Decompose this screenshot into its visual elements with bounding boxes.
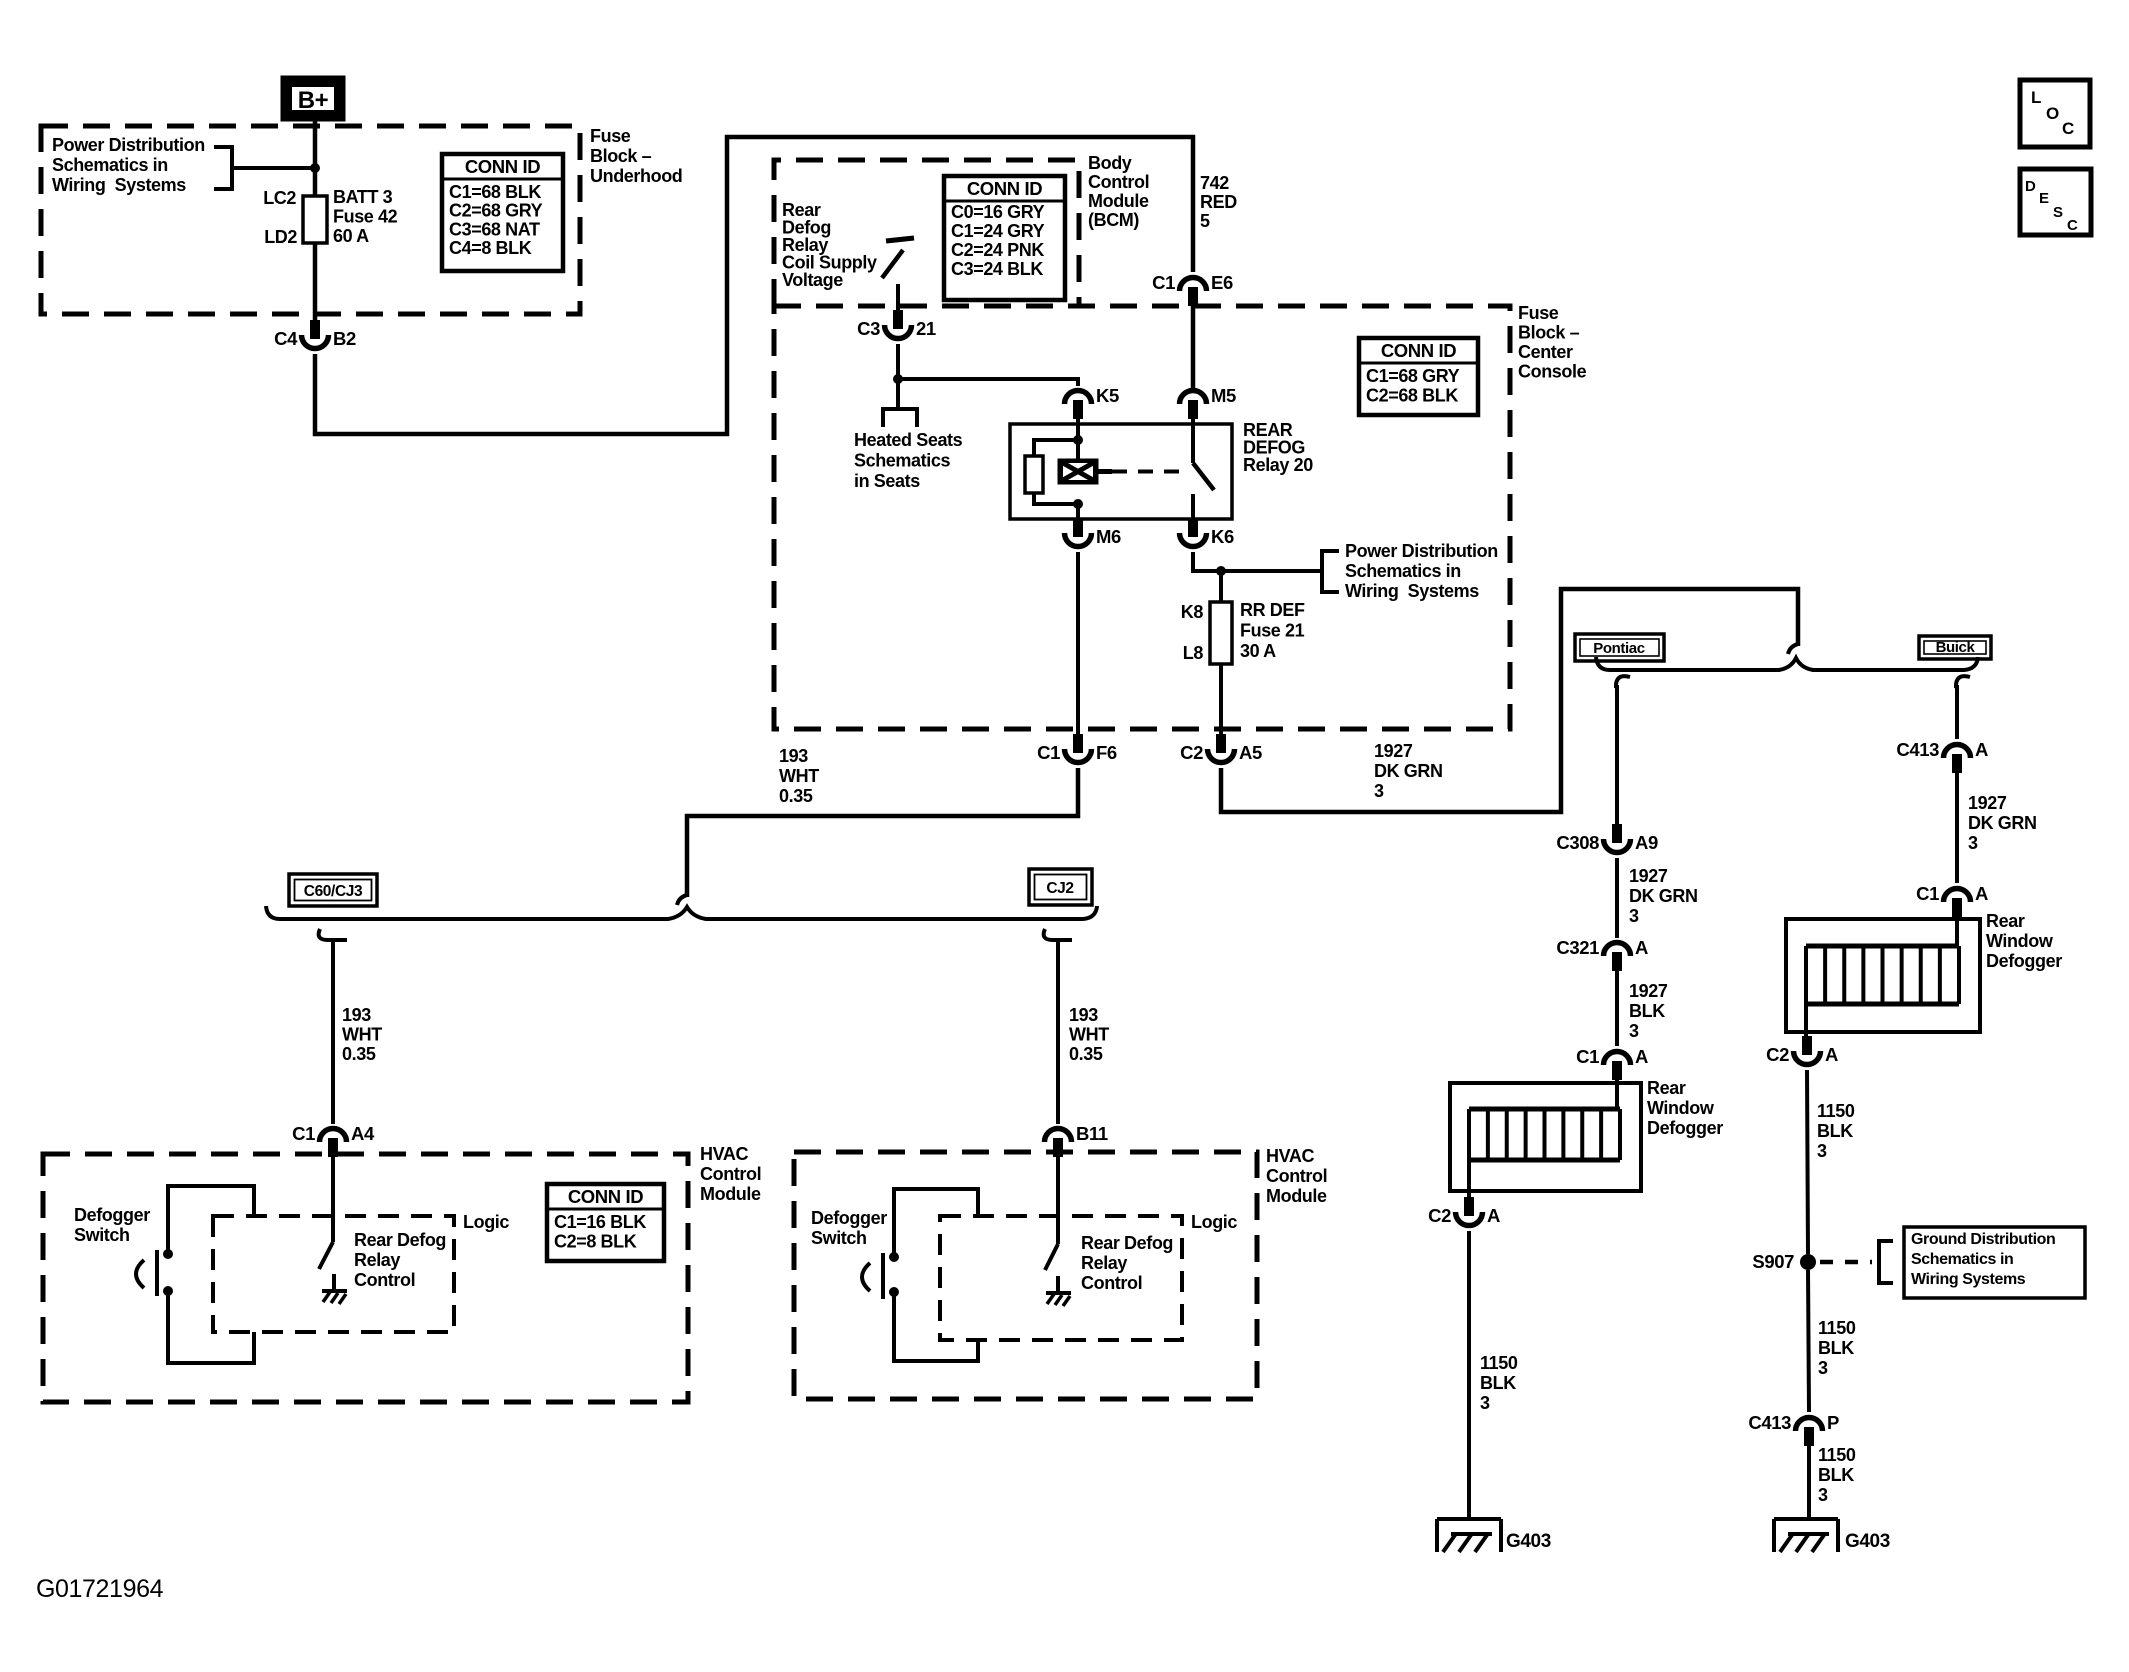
label Body Control Module (BCM) — [1088, 153, 1149, 230]
label S907 — [1752, 1251, 1794, 1272]
branch hook to HVAC 2 — [1044, 929, 1072, 940]
svg-text:193: 193 — [1069, 1005, 1098, 1025]
svg-text:BLK: BLK — [1480, 1373, 1516, 1393]
svg-text:LD2: LD2 — [264, 227, 297, 247]
svg-text:C: C — [2067, 217, 2078, 234]
svg-text:CJ2: CJ2 — [1046, 880, 1073, 897]
tab LOC — [2020, 80, 2090, 147]
svg-text:WHT: WHT — [1069, 1025, 1109, 1045]
CONN ID table underhood — [442, 154, 563, 271]
label Logic 1 — [463, 1212, 509, 1232]
terminal B+ battery feed — [281, 76, 345, 121]
svg-text:Control: Control — [700, 1164, 761, 1184]
svg-text:0.35: 0.35 — [1069, 1044, 1103, 1064]
wire B+ down to fuse — [313, 115, 318, 196]
svg-text:C3=68 NAT: C3=68 NAT — [449, 219, 540, 239]
svg-text:C0=16 GRY: C0=16 GRY — [951, 202, 1045, 222]
wire defogger P to C2/A — [1467, 1160, 1471, 1198]
svg-text:Body: Body — [1088, 153, 1132, 173]
svg-text:Wiring Systems: Wiring Systems — [52, 175, 186, 195]
svg-text:Logic: Logic — [463, 1212, 509, 1232]
relay coil crossed-box symbol — [1058, 459, 1112, 484]
svg-text:C3: C3 — [857, 318, 880, 339]
wire C3 down to junction — [896, 344, 900, 379]
svg-text:3: 3 — [1629, 906, 1639, 926]
pushbutton arc 1 — [136, 1260, 144, 1288]
svg-text:Block –: Block – — [1518, 323, 1580, 343]
svg-text:Rear Defog: Rear Defog — [354, 1230, 446, 1250]
svg-text:Power Distribution: Power Distribution — [52, 135, 205, 155]
wire brace to C308 — [1615, 685, 1619, 826]
label G403 (Pontiac) — [1506, 1531, 1551, 1552]
relay switch blade — [1193, 463, 1214, 490]
chassis ground logic 1 — [322, 1274, 347, 1304]
brace Pontiac/Buick — [1596, 657, 1978, 670]
svg-text:3: 3 — [1374, 781, 1384, 801]
svg-text:Wiring Systems: Wiring Systems — [1911, 1271, 2026, 1288]
svg-text:B+: B+ — [298, 87, 329, 114]
wire bus to C1/A4 — [331, 940, 335, 1124]
svg-text:C1=68 GRY: C1=68 GRY — [1366, 366, 1460, 386]
wire C2/A Pontiac to ground — [1467, 1231, 1471, 1519]
connector C1/A Pontiac — [1576, 1046, 1648, 1080]
label 1150 BLK 3 (Buick 2) — [1818, 1318, 1856, 1378]
svg-text:P: P — [1827, 1412, 1839, 1433]
label Rear Defog Relay Control 2 — [1081, 1233, 1173, 1293]
svg-text:193: 193 — [342, 1005, 371, 1025]
svg-text:BATT 3: BATT 3 — [333, 187, 393, 207]
fuse F42 BATT 3 60A — [303, 196, 327, 243]
wire K5 into relay — [1076, 410, 1080, 460]
svg-text:K6: K6 — [1211, 526, 1234, 547]
wire defogger B to C2/A — [1804, 1004, 1808, 1038]
wire M5 into relay — [1191, 410, 1195, 463]
connector C2/A Pontiac — [1428, 1197, 1500, 1226]
switch blade Rear Defog Relay Control 1 — [319, 1242, 333, 1269]
svg-text:Rear Defog: Rear Defog — [1081, 1233, 1173, 1253]
svg-text:3: 3 — [1480, 1393, 1490, 1413]
svg-text:Power Distribution: Power Distribution — [1345, 541, 1498, 561]
svg-text:Defogger: Defogger — [1647, 1118, 1723, 1138]
svg-text:DK GRN: DK GRN — [1968, 813, 2037, 833]
wire B11 into module 2 — [1056, 1154, 1060, 1244]
svg-text:Console: Console — [1518, 362, 1587, 382]
svg-text:O: O — [2046, 104, 2059, 123]
svg-text:1150: 1150 — [1818, 1445, 1856, 1465]
wire off-page ref to B+ feed — [232, 166, 315, 170]
label 742 RED 5 — [1200, 173, 1237, 231]
svg-text:Switch: Switch — [811, 1228, 867, 1248]
svg-text:C2: C2 — [1180, 742, 1203, 763]
svg-text:G403: G403 — [1845, 1531, 1890, 1552]
svg-text:A4: A4 — [351, 1123, 375, 1144]
svg-text:3: 3 — [1629, 1021, 1639, 1041]
svg-text:WHT: WHT — [779, 766, 819, 786]
connector C308/A9 — [1556, 824, 1658, 853]
label 193 WHT 0.35 (feed) — [779, 746, 819, 806]
label 193 WHT 0.35 (HVAC 1) — [342, 1005, 382, 1064]
label Rear Window Defogger (Buick) — [1986, 911, 2062, 971]
connector C3/21 — [857, 310, 936, 339]
label REAR DEFOG Relay 20 — [1243, 420, 1313, 475]
box Ground Distribution Schematics in Wiring Systems — [1904, 1227, 2085, 1298]
svg-text:C308: C308 — [1556, 832, 1599, 853]
svg-text:Defogger: Defogger — [74, 1205, 150, 1225]
svg-text:C1=24 GRY: C1=24 GRY — [951, 221, 1045, 241]
svg-text:M5: M5 — [1211, 385, 1236, 406]
svg-text:Control: Control — [1266, 1166, 1327, 1186]
svg-text:B11: B11 — [1076, 1123, 1108, 1144]
label 1927 BLK 3 (Pontiac) — [1629, 981, 1668, 1041]
svg-text:Pontiac: Pontiac — [1593, 640, 1644, 657]
svg-text:Schematics in: Schematics in — [1911, 1251, 2013, 1268]
dashed box Logic 1 — [213, 1216, 454, 1332]
svg-text:RR DEF: RR DEF — [1240, 600, 1305, 620]
svg-text:1150: 1150 — [1480, 1353, 1518, 1373]
dashed box Fuse Block - Center Console — [774, 306, 1510, 729]
relay box REAR DEFOG Relay 20 — [1010, 424, 1232, 519]
wire junction to heated-seats ref — [896, 379, 900, 409]
label Fuse Block - Center Console — [1518, 303, 1587, 382]
svg-text:C: C — [2062, 119, 2074, 138]
connector K6 — [1180, 518, 1234, 547]
svg-text:B2: B2 — [333, 328, 356, 349]
svg-text:193: 193 — [779, 746, 808, 766]
svg-text:0.35: 0.35 — [342, 1044, 376, 1064]
svg-text:Block –: Block – — [590, 146, 652, 166]
svg-text:60 A: 60 A — [333, 226, 369, 246]
svg-text:G01721964: G01721964 — [36, 1575, 164, 1603]
BCM driver switch (coil supply) — [882, 238, 914, 312]
relay coil resistor — [1025, 456, 1043, 493]
svg-text:C321: C321 — [1556, 937, 1599, 958]
svg-text:C2: C2 — [1766, 1044, 1789, 1065]
dashed box Logic 2 — [940, 1216, 1182, 1340]
wire K6 to fuse 21 — [1193, 552, 1221, 571]
svg-text:5: 5 — [1200, 211, 1210, 231]
svg-text:21: 21 — [916, 318, 936, 339]
wire C2/A Buick to S907 — [1807, 1070, 1808, 1254]
figure number G01721964 — [36, 1575, 164, 1603]
label 1927 DK GRN 3 (Pontiac 1) — [1629, 866, 1698, 926]
break symbol at bus feed — [677, 895, 687, 905]
label 1150 BLK 3 (Buick 3) — [1818, 1445, 1856, 1505]
dashed box HVAC Control Module 1 — [43, 1154, 688, 1402]
svg-text:L8: L8 — [1183, 643, 1204, 663]
svg-text:C3=24 BLK: C3=24 BLK — [951, 259, 1043, 279]
label 1150 BLK 3 (Buick 1) — [1817, 1101, 1855, 1161]
break symbol above brace — [1788, 644, 1798, 654]
svg-text:742: 742 — [1200, 173, 1229, 193]
wire E6 to M5 — [1191, 306, 1196, 392]
wire junction down to fuse 21 — [1219, 571, 1223, 602]
svg-text:Fuse 42: Fuse 42 — [333, 207, 398, 227]
svg-text:DK GRN: DK GRN — [1374, 761, 1443, 781]
pushbutton bar 2 — [881, 1253, 885, 1299]
label HVAC Control Module 2 — [1266, 1146, 1327, 1206]
wire fuse 21 to C2/A5 — [1219, 664, 1223, 736]
svg-text:1927: 1927 — [1374, 741, 1413, 761]
svg-text:CONN ID: CONN ID — [1381, 340, 1456, 361]
wire A9 to C321 — [1615, 858, 1619, 938]
junction node above fuse 21 — [1216, 566, 1226, 576]
svg-text:C1: C1 — [292, 1123, 315, 1144]
svg-text:Heated Seats: Heated Seats — [854, 430, 963, 450]
svg-text:1927: 1927 — [1629, 981, 1668, 1001]
junction node coil top — [1073, 435, 1083, 445]
connector box C60/CJ3 — [289, 874, 377, 906]
ground G403 Pontiac — [1437, 1519, 1501, 1552]
svg-text:C2: C2 — [1428, 1205, 1451, 1226]
label Defogger Switch 2 — [811, 1208, 887, 1248]
svg-text:Wiring Systems: Wiring Systems — [1345, 581, 1479, 601]
label HVAC Control Module 1 — [700, 1144, 761, 1204]
svg-text:C2=24 PNK: C2=24 PNK — [951, 240, 1044, 260]
switch contact top 2 — [889, 1252, 899, 1262]
svg-text:Center: Center — [1518, 342, 1573, 362]
CONN ID table HVAC — [547, 1184, 664, 1261]
svg-text:Control: Control — [354, 1270, 415, 1290]
svg-text:A: A — [1975, 883, 1988, 904]
svg-text:C1: C1 — [1037, 742, 1060, 763]
wire C413/A to C1/A Buick — [1955, 773, 1959, 883]
switch contact bottom 2 — [889, 1287, 899, 1297]
dashed box Fuse Block - Underhood — [41, 126, 580, 314]
svg-text:1150: 1150 — [1818, 1318, 1856, 1338]
ground G403 Buick — [1774, 1519, 1838, 1552]
tab DESC — [2020, 169, 2091, 235]
svg-text:C1: C1 — [1152, 272, 1175, 293]
fuse F21 RR DEF 30A — [1210, 602, 1232, 664]
svg-text:Rear: Rear — [1647, 1078, 1686, 1098]
wire relay switch to K6 — [1191, 494, 1195, 520]
svg-text:Fuse: Fuse — [1518, 303, 1559, 323]
svg-text:C2=68 GRY: C2=68 GRY — [449, 201, 543, 221]
wire S907 to C413/P — [1808, 1270, 1809, 1412]
svg-text:Ground Distribution: Ground Distribution — [1911, 1231, 2055, 1248]
rear window defogger Buick — [1786, 919, 1980, 1032]
svg-text:HVAC: HVAC — [700, 1144, 748, 1164]
connector B11 — [1045, 1123, 1108, 1157]
svg-text:L: L — [2031, 88, 2041, 107]
svg-text:C1=16 BLK: C1=16 BLK — [554, 1212, 646, 1232]
off-page reference Power Distribution (console) — [1322, 541, 1498, 601]
svg-text:Module: Module — [1088, 191, 1149, 211]
svg-text:3: 3 — [1817, 1141, 1827, 1161]
svg-text:M6: M6 — [1096, 526, 1121, 547]
svg-text:S: S — [2053, 204, 2063, 221]
wire C321 to C1/A Pontiac — [1615, 971, 1619, 1046]
svg-text:F6: F6 — [1096, 742, 1117, 763]
svg-text:DK GRN: DK GRN — [1629, 886, 1698, 906]
connector box CJ2 — [1029, 869, 1092, 905]
svg-text:C1: C1 — [1916, 883, 1939, 904]
svg-text:Module: Module — [700, 1184, 761, 1204]
connector C1/A Buick — [1916, 883, 1988, 917]
svg-text:C1=68 BLK: C1=68 BLK — [449, 182, 541, 202]
svg-text:1927: 1927 — [1629, 866, 1668, 886]
splice S907 — [1800, 1254, 1816, 1270]
wire C2/A5 to Pontiac-Buick brace — [1221, 589, 1798, 812]
svg-text:A: A — [1825, 1044, 1838, 1065]
svg-text:Schematics in: Schematics in — [52, 155, 168, 175]
svg-text:Module: Module — [1266, 1186, 1327, 1206]
label L8 — [1183, 643, 1204, 663]
relay actuator dashed link — [1112, 470, 1188, 474]
wire C413/P to ground — [1807, 1446, 1811, 1519]
wire M6 down to C1/F6 — [1076, 552, 1080, 736]
wire C1/A into defogger P — [1615, 1080, 1619, 1109]
svg-text:A: A — [1635, 937, 1648, 958]
svg-text:CONN ID: CONN ID — [465, 156, 540, 177]
svg-text:in Seats: in Seats — [854, 471, 920, 491]
connector M5 — [1180, 385, 1237, 419]
junction node coil bottom — [1073, 499, 1083, 509]
dashed box Body Control Module — [774, 160, 1079, 306]
svg-text:1150: 1150 — [1817, 1101, 1855, 1121]
svg-text:K8: K8 — [1181, 602, 1204, 622]
wire brace to C413/A — [1955, 685, 1959, 739]
svg-text:A: A — [1487, 1205, 1500, 1226]
label 193 WHT 0.35 (HVAC 2) — [1069, 1005, 1109, 1064]
svg-text:C1: C1 — [1576, 1046, 1599, 1067]
svg-text:C4: C4 — [274, 328, 298, 349]
chassis ground logic 2 — [1046, 1276, 1071, 1306]
svg-text:BLK: BLK — [1818, 1338, 1854, 1358]
svg-text:Rear: Rear — [1986, 911, 2025, 931]
svg-text:C4=8 BLK: C4=8 BLK — [449, 238, 532, 258]
svg-text:K5: K5 — [1096, 385, 1119, 406]
wire coil bottom to M6 — [1076, 504, 1080, 520]
wire junction to K5 — [898, 379, 1078, 386]
rear window defogger Pontiac — [1450, 1083, 1641, 1191]
svg-text:E: E — [2039, 190, 2049, 207]
svg-text:1927: 1927 — [1968, 793, 2007, 813]
connector M6 — [1065, 518, 1122, 547]
switch blade Rear Defog Relay Control 2 — [1045, 1244, 1058, 1270]
svg-text:3: 3 — [1818, 1485, 1828, 1505]
svg-text:0.35: 0.35 — [779, 786, 813, 806]
label 1927 DK GRN 3 (A5) — [1374, 741, 1443, 801]
bus line C60/CJ3 to CJ2 — [266, 906, 1097, 919]
switch contact bottom 1 — [163, 1286, 173, 1296]
connector C2/A Buick — [1766, 1036, 1838, 1065]
svg-text:Defogger: Defogger — [811, 1208, 887, 1228]
branch hook Buick — [1956, 676, 1970, 688]
svg-text:CONN ID: CONN ID — [568, 1186, 643, 1207]
svg-text:G403: G403 — [1506, 1531, 1551, 1552]
labels RR DEF / Fuse 21 / 30 A — [1240, 600, 1305, 661]
svg-text:Relay: Relay — [354, 1250, 400, 1270]
svg-text:A9: A9 — [1635, 832, 1658, 853]
label box Pontiac — [1575, 634, 1664, 661]
connector C413/A — [1896, 739, 1988, 773]
label LC2 — [263, 188, 296, 208]
label Rear Defog Relay Control 1 — [354, 1230, 446, 1290]
svg-text:Buick: Buick — [1936, 639, 1976, 656]
svg-text:Relay 20: Relay 20 — [1243, 455, 1313, 475]
CONN ID table console — [1359, 338, 1478, 415]
wire A4 into module 1 — [331, 1154, 335, 1242]
label Rear Window Defogger (Pontiac) — [1647, 1078, 1723, 1138]
branch hook to HVAC 1 — [319, 929, 347, 940]
switch contact top 1 — [163, 1249, 173, 1259]
label Logic 2 — [1191, 1212, 1237, 1232]
label Defogger Switch 1 — [74, 1205, 150, 1245]
connector C1/A4 — [292, 1123, 375, 1157]
off-page bracket ground distribution — [1879, 1241, 1893, 1283]
svg-text:Schematics: Schematics — [854, 451, 950, 471]
labels BATT 3 / Fuse 42 / 60 A — [333, 187, 398, 246]
branch hook Pontiac — [1616, 676, 1630, 688]
svg-text:BLK: BLK — [1818, 1465, 1854, 1485]
svg-text:A5: A5 — [1239, 742, 1262, 763]
svg-text:LC2: LC2 — [263, 188, 296, 208]
label G403 (Buick) — [1845, 1531, 1890, 1552]
svg-text:Window: Window — [1986, 931, 2054, 951]
label K8 — [1181, 602, 1204, 622]
connector C321/A — [1556, 937, 1648, 971]
svg-text:C60/CJ3: C60/CJ3 — [304, 883, 363, 900]
connector C413/P — [1748, 1412, 1839, 1446]
defogger switch loop 2 — [894, 1189, 978, 1361]
svg-text:Schematics in: Schematics in — [1345, 561, 1461, 581]
svg-text:3: 3 — [1968, 833, 1978, 853]
svg-text:S907: S907 — [1752, 1251, 1794, 1272]
svg-text:RED: RED — [1200, 192, 1237, 212]
svg-text:BLK: BLK — [1629, 1001, 1665, 1021]
svg-text:C413: C413 — [1748, 1412, 1791, 1433]
connector C1/F6 — [1037, 734, 1117, 763]
svg-text:Voltage: Voltage — [782, 270, 843, 290]
defogger switch loop 1 — [168, 1186, 254, 1363]
svg-text:Control: Control — [1088, 172, 1149, 192]
off-page reference Heated Seats Schematics in Seats — [854, 409, 963, 491]
off-page reference Power Distribution in Wiring Systems (underhood) — [52, 135, 232, 195]
svg-text:C413: C413 — [1896, 739, 1939, 760]
svg-text:CONN ID: CONN ID — [967, 178, 1042, 199]
label 1927 DK GRN 3 (Buick) — [1968, 793, 2037, 853]
svg-text:30 A: 30 A — [1240, 641, 1276, 661]
wire feed C4 to BCM (742 circuit) — [315, 137, 1193, 434]
svg-text:C2=68 BLK: C2=68 BLK — [1366, 386, 1458, 406]
svg-text:Logic: Logic — [1191, 1212, 1237, 1232]
svg-text:C2=8 BLK: C2=8 BLK — [554, 1232, 637, 1252]
dashed box HVAC Control Module 2 — [794, 1152, 1257, 1399]
svg-text:Defogger: Defogger — [1986, 951, 2062, 971]
svg-text:Switch: Switch — [74, 1225, 130, 1245]
svg-text:Fuse 21: Fuse 21 — [1240, 621, 1305, 641]
svg-text:3: 3 — [1818, 1358, 1828, 1378]
svg-text:Control: Control — [1081, 1273, 1142, 1293]
wire C1/A into defogger B — [1955, 917, 1959, 946]
wire fuse to connector C4 — [313, 243, 318, 320]
label Rear Defog Relay Coil Supply Voltage — [782, 200, 877, 290]
svg-text:(BCM): (BCM) — [1088, 210, 1139, 230]
connector K5 — [1065, 385, 1119, 419]
svg-text:A: A — [1635, 1046, 1648, 1067]
svg-text:Fuse: Fuse — [590, 126, 631, 146]
wire coil loop bottom — [1034, 493, 1078, 504]
svg-text:BLK: BLK — [1817, 1121, 1853, 1141]
svg-text:E6: E6 — [1211, 272, 1233, 293]
wire C1/F6 to HVAC bus — [687, 768, 1078, 897]
wire bus to B11 — [1056, 940, 1060, 1124]
svg-text:D: D — [2025, 178, 2036, 195]
wire junction to off-page ref — [1221, 569, 1322, 573]
junction node under B+ — [310, 163, 320, 173]
svg-text:HVAC: HVAC — [1266, 1146, 1314, 1166]
